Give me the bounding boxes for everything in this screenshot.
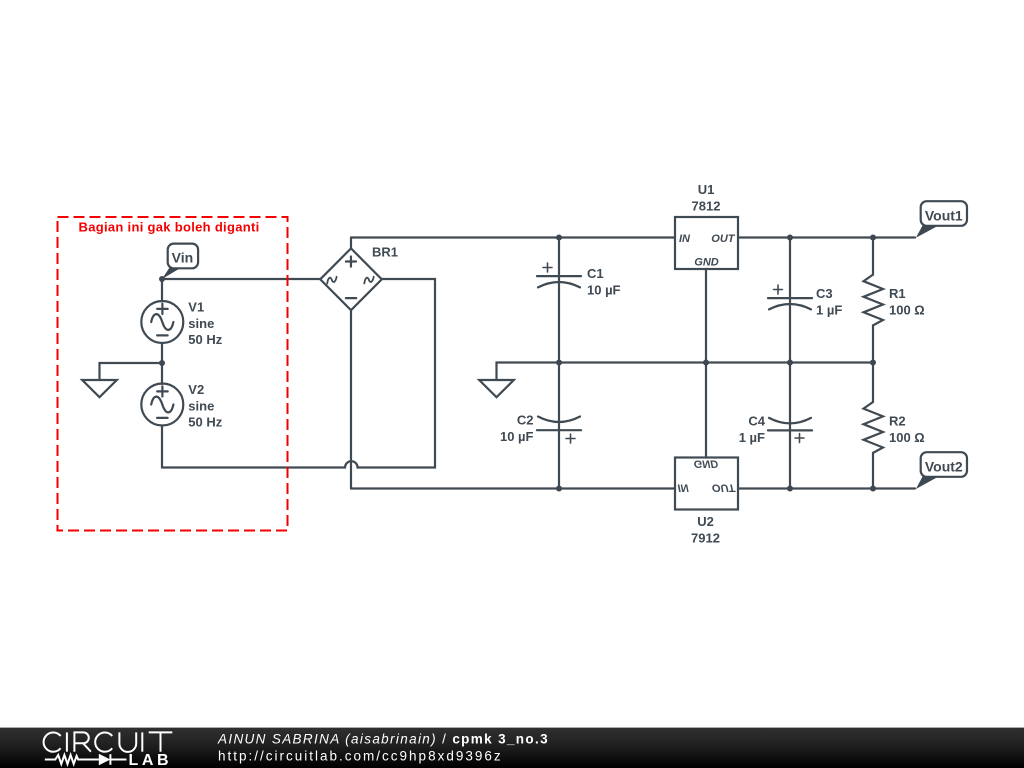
svg-text:sine: sine [188,398,214,413]
svg-text:100 Ω: 100 Ω [889,302,925,317]
svg-text:OUT: OUT [711,233,736,245]
svg-text:7812: 7812 [692,198,721,213]
svg-text:Bagian ini gak boleh diganti: Bagian ini gak boleh diganti [79,219,260,234]
svg-text:U2: U2 [697,514,714,529]
svg-text:OUT: OUT [712,482,737,494]
svg-text:C4: C4 [748,414,765,429]
svg-text:C3: C3 [816,286,833,301]
svg-text:AINUN SABRINA (aisabrinain) /: AINUN SABRINA (aisabrinain) / cpmk 3_no.… [217,732,549,747]
svg-text:V1: V1 [188,299,204,314]
svg-text:Vout2: Vout2 [925,459,963,475]
svg-text:1 µF: 1 µF [816,302,842,317]
svg-text:R1: R1 [889,286,906,301]
svg-text:50 Hz: 50 Hz [188,332,222,347]
svg-text:V2: V2 [188,382,204,397]
svg-text:BR1: BR1 [372,245,398,260]
svg-text:U1: U1 [698,182,715,197]
svg-text:C1: C1 [587,266,604,281]
svg-text:100 Ω: 100 Ω [889,430,925,445]
svg-text:R2: R2 [889,414,906,429]
svg-text:sine: sine [188,316,214,331]
svg-text:1 µF: 1 µF [739,430,765,445]
svg-text:http://circuitlab.com/cc9hp8xd: http://circuitlab.com/cc9hp8xd9396z [218,749,503,764]
svg-text:10 µF: 10 µF [500,429,534,444]
svg-text:Vin: Vin [172,249,194,265]
svg-text:GND: GND [694,457,719,469]
svg-text:IN: IN [679,233,691,245]
svg-text:IN: IN [678,482,690,494]
svg-text:GND: GND [694,257,719,269]
svg-text:10 µF: 10 µF [587,282,621,297]
svg-text:Vout1: Vout1 [925,207,963,223]
svg-text:C2: C2 [517,413,534,428]
svg-text:7912: 7912 [691,530,720,545]
svg-text:50 Hz: 50 Hz [188,415,222,430]
svg-text:LAB: LAB [129,752,173,768]
